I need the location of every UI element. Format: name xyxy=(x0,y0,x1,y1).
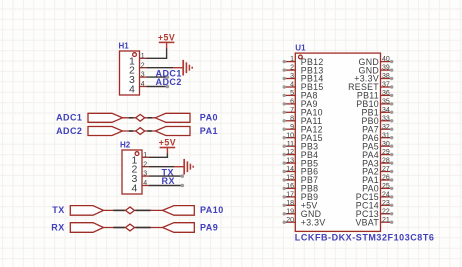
pin 2 PB13 xyxy=(283,65,324,76)
svg-text:PA10: PA10 xyxy=(200,205,224,215)
ground (H1 pin2) xyxy=(173,60,192,76)
wire H2 pin4 xyxy=(149,185,182,187)
svg-text:11: 11 xyxy=(287,141,294,148)
wire H1 pin2 to ground xyxy=(147,67,174,69)
svg-text:40: 40 xyxy=(382,56,390,63)
svg-text:3: 3 xyxy=(143,171,147,178)
svg-text:39: 39 xyxy=(382,65,390,72)
svg-text:PA0: PA0 xyxy=(200,113,218,123)
svg-text:RX: RX xyxy=(162,176,175,186)
pin 23 PC14 xyxy=(356,200,394,211)
svg-text:PA1: PA1 xyxy=(200,126,218,136)
pin 28 PA3 xyxy=(362,158,393,169)
svg-text:21: 21 xyxy=(382,217,390,224)
junction dot H1 pin3 xyxy=(166,75,170,79)
pin 38 +3.3V xyxy=(354,73,393,84)
svg-text:7: 7 xyxy=(290,107,294,114)
pin 1 marker circle U1 xyxy=(299,55,303,59)
pin 13 PB5 xyxy=(283,158,319,169)
pin 25 PA0 xyxy=(362,183,393,194)
wire RX-PA9 xyxy=(104,227,163,229)
svg-text:2: 2 xyxy=(141,62,145,69)
svg-text:23: 23 xyxy=(382,200,390,207)
port TX xyxy=(70,206,103,216)
svg-text:1: 1 xyxy=(290,56,294,63)
pin 8 PA11 xyxy=(283,115,323,126)
pin 7 PA10 xyxy=(283,107,323,118)
svg-text:25: 25 xyxy=(382,183,390,190)
svg-text:+5V: +5V xyxy=(158,32,175,42)
port RX xyxy=(70,223,103,233)
net tie diamond ADC1/PA0 xyxy=(136,114,145,121)
svg-text:28: 28 xyxy=(382,158,390,165)
svg-text:34: 34 xyxy=(382,107,390,114)
svg-text:TX: TX xyxy=(52,205,64,215)
svg-text:ADC1: ADC1 xyxy=(56,113,82,123)
svg-text:16: 16 xyxy=(286,183,294,190)
ground (H2 pin2) xyxy=(174,159,193,175)
header H1 xyxy=(119,41,147,95)
svg-text:20: 20 xyxy=(286,217,294,224)
pin 9 PA12 xyxy=(283,124,323,135)
junction dot H1 pin4 xyxy=(166,85,170,89)
header H2 xyxy=(120,140,149,194)
pin 24 PC15 xyxy=(356,192,394,203)
svg-text:9: 9 xyxy=(290,124,294,131)
svg-text:18: 18 xyxy=(286,200,294,207)
power +5V (H1) xyxy=(158,32,175,48)
svg-text:2: 2 xyxy=(290,65,294,72)
wire H2 pin3 xyxy=(149,175,182,177)
port PA0 xyxy=(155,113,190,122)
svg-text:+3.3V: +3.3V xyxy=(301,217,326,227)
pin 5 PA8 xyxy=(283,90,318,101)
pin 11 PB3 xyxy=(283,141,319,152)
svg-text:4: 4 xyxy=(129,84,135,96)
svg-text:PA9: PA9 xyxy=(200,222,218,232)
svg-text:19: 19 xyxy=(286,208,294,215)
port ADC2 xyxy=(88,127,123,136)
svg-text:10: 10 xyxy=(286,132,294,139)
pin 12 PB4 xyxy=(283,149,319,160)
svg-text:37: 37 xyxy=(382,82,390,89)
wire TX-PA10 xyxy=(104,209,163,211)
svg-text:8: 8 xyxy=(290,115,294,122)
port PA9 xyxy=(163,223,195,233)
svg-text:13: 13 xyxy=(286,158,294,165)
svg-text:4: 4 xyxy=(141,81,145,88)
svg-text:27: 27 xyxy=(382,166,390,173)
svg-text:29: 29 xyxy=(382,149,390,156)
pin 33 PB0 xyxy=(361,115,393,126)
svg-text:15: 15 xyxy=(286,175,294,182)
pin 30 PA5 xyxy=(362,141,393,152)
pin 14 PB6 xyxy=(283,166,319,177)
svg-text:24: 24 xyxy=(382,192,390,199)
svg-text:36: 36 xyxy=(382,90,390,97)
junction dot H2 pin4 xyxy=(181,184,185,188)
pin 10 PA15 xyxy=(283,132,323,143)
svg-text:5: 5 xyxy=(290,90,294,97)
svg-text:+5V: +5V xyxy=(159,137,176,147)
svg-text:32: 32 xyxy=(382,124,390,131)
pin 37 RESET xyxy=(348,82,393,93)
svg-text:VBAT: VBAT xyxy=(355,217,379,227)
pin 4 PB15 xyxy=(283,82,324,93)
port PA1 xyxy=(155,127,190,136)
wire ADC2-PA1 xyxy=(123,130,156,132)
pin 17 PB9 xyxy=(283,192,319,203)
pin 36 PB11 xyxy=(357,90,393,101)
svg-text:1: 1 xyxy=(143,152,147,159)
svg-text:4: 4 xyxy=(131,183,137,195)
svg-text:12: 12 xyxy=(286,149,294,156)
wire ADC1-PA0 xyxy=(123,117,156,119)
svg-text:4: 4 xyxy=(290,82,294,89)
svg-text:17: 17 xyxy=(286,192,294,199)
pin 21 VBAT xyxy=(355,217,393,228)
pin 19 GND xyxy=(283,208,322,219)
svg-text:LCKFB-DKX-STM32F103C8T6: LCKFB-DKX-STM32F103C8T6 xyxy=(295,233,435,243)
pin 29 PA4 xyxy=(362,149,393,160)
svg-text:31: 31 xyxy=(382,132,390,139)
svg-text:H2: H2 xyxy=(120,140,131,149)
net tie diamond TX/PA10 xyxy=(126,207,135,214)
pin 31 PA6 xyxy=(362,132,393,143)
svg-text:6: 6 xyxy=(290,99,294,106)
svg-text:ADC2: ADC2 xyxy=(56,126,82,136)
svg-text:3: 3 xyxy=(141,72,145,79)
wire H2 pin1 to +5V xyxy=(149,153,167,157)
wire H1 pin1 to +5V xyxy=(147,48,167,58)
svg-text:RX: RX xyxy=(51,222,64,232)
pin 40 GND xyxy=(359,56,394,67)
net tie diamond RX/PA9 xyxy=(126,224,135,231)
wire H1 pin4 xyxy=(147,86,168,88)
port ADC1 xyxy=(88,113,123,122)
pin 20 +3.3V xyxy=(283,217,326,228)
wire H1 pin3 xyxy=(147,76,168,78)
svg-text:35: 35 xyxy=(382,99,390,106)
net tie diamond ADC2/PA1 xyxy=(136,128,145,135)
svg-text:22: 22 xyxy=(382,208,390,215)
svg-text:4: 4 xyxy=(143,180,147,187)
pin 3 PB14 xyxy=(283,73,324,84)
pin 32 PA7 xyxy=(362,124,393,135)
pin 6 PA9 xyxy=(283,99,318,110)
pin 26 PA1 xyxy=(362,175,393,186)
junction dot H2 pin3 xyxy=(181,174,185,178)
svg-text:30: 30 xyxy=(382,141,390,148)
svg-text:ADC2: ADC2 xyxy=(156,77,182,87)
pin 39 GND xyxy=(359,65,394,76)
pin 1 PB12 xyxy=(283,56,324,67)
wire H2 pin2 to ground xyxy=(149,166,174,168)
pin 34 PB1 xyxy=(361,107,393,118)
pin 22 PC13 xyxy=(356,208,394,219)
pin 16 PB8 xyxy=(283,183,319,194)
pin 27 PA2 xyxy=(362,166,393,177)
svg-text:38: 38 xyxy=(382,73,390,80)
svg-text:U1: U1 xyxy=(295,43,306,52)
power +5V (H2) xyxy=(159,137,176,153)
pin 15 PB7 xyxy=(283,175,319,186)
IC U1 body xyxy=(295,53,380,231)
svg-text:2: 2 xyxy=(143,161,147,168)
svg-text:26: 26 xyxy=(382,175,390,182)
svg-text:H1: H1 xyxy=(119,41,130,50)
svg-text:1: 1 xyxy=(141,53,145,60)
svg-text:3: 3 xyxy=(290,73,294,80)
svg-text:14: 14 xyxy=(286,166,294,173)
port PA10 xyxy=(163,206,195,216)
pin 18 +5V xyxy=(283,200,318,211)
pin 35 PB10 xyxy=(356,99,393,110)
svg-text:33: 33 xyxy=(382,115,390,122)
